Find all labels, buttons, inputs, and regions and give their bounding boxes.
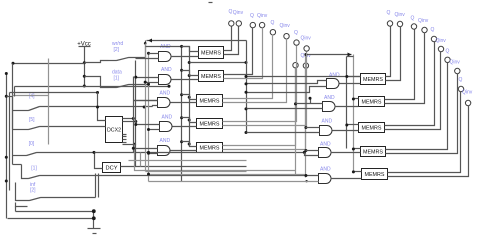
svg-text:Qinv: Qinv bbox=[436, 38, 447, 44]
svg-text:AND: AND bbox=[160, 90, 171, 96]
svg-text:[1]: [1] bbox=[31, 166, 37, 172]
svg-text:Qinv: Qinv bbox=[257, 13, 268, 19]
svg-text:[0]: [0] bbox=[29, 141, 35, 147]
svg-text:MEMRS: MEMRS bbox=[201, 74, 221, 80]
svg-text:Q: Q bbox=[294, 30, 298, 36]
svg-text:AND: AND bbox=[322, 118, 333, 124]
svg-text:Q: Q bbox=[271, 20, 275, 26]
svg-text:Qinv: Qinv bbox=[418, 18, 429, 24]
svg-text:MEMRS: MEMRS bbox=[362, 126, 382, 132]
svg-text:[2]: [2] bbox=[114, 47, 120, 53]
svg-text:Q: Q bbox=[250, 13, 254, 19]
svg-text:AND: AND bbox=[324, 95, 335, 101]
svg-text:Q: Q bbox=[387, 10, 391, 16]
svg-text:MEMRS: MEMRS bbox=[365, 172, 385, 178]
svg-text:Qinv: Qinv bbox=[450, 60, 461, 66]
svg-text:[5]: [5] bbox=[29, 117, 35, 123]
svg-text:Q: Q bbox=[459, 77, 463, 83]
svg-text:AND: AND bbox=[162, 114, 173, 120]
svg-text:[4]: [4] bbox=[29, 94, 35, 100]
svg-text:AND: AND bbox=[160, 138, 171, 144]
svg-text:[1]: [1] bbox=[114, 76, 120, 82]
svg-text:DCY: DCY bbox=[106, 166, 118, 172]
svg-text:[2]: [2] bbox=[30, 188, 36, 194]
svg-text:AND: AND bbox=[320, 141, 331, 147]
svg-text:Q: Q bbox=[431, 27, 435, 33]
svg-text:MEMRS: MEMRS bbox=[200, 99, 220, 105]
svg-text:Qinv: Qinv bbox=[395, 12, 406, 18]
svg-text:Qinv: Qinv bbox=[462, 90, 473, 96]
svg-text:AND: AND bbox=[329, 72, 340, 78]
svg-text:Q: Q bbox=[411, 16, 415, 22]
svg-text:MEMRS: MEMRS bbox=[363, 150, 383, 156]
svg-text:Q: Q bbox=[446, 49, 450, 55]
svg-text:Qinv: Qinv bbox=[280, 23, 291, 29]
svg-text:MEMRS: MEMRS bbox=[200, 146, 220, 152]
svg-text:MEMRS: MEMRS bbox=[363, 77, 383, 83]
svg-text:Qinv: Qinv bbox=[233, 10, 244, 16]
svg-text:AND: AND bbox=[320, 166, 331, 172]
svg-text:MEMRS: MEMRS bbox=[201, 51, 221, 57]
svg-text:AND: AND bbox=[161, 67, 172, 73]
svg-text:Qinv: Qinv bbox=[301, 36, 312, 42]
svg-text:MEMRS: MEMRS bbox=[200, 122, 220, 128]
svg-text:MEMRS: MEMRS bbox=[362, 100, 382, 106]
svg-text:DCX2: DCX2 bbox=[107, 128, 121, 134]
